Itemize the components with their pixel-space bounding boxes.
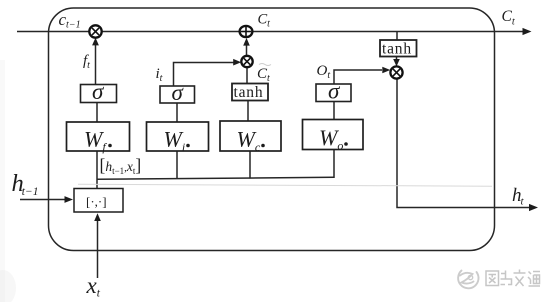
wire h(t-1) into concat bbox=[20, 199, 65, 201]
wire c-line to tanh2 bbox=[396, 32, 398, 41]
svg-text:σ: σ bbox=[328, 79, 341, 104]
weight box Wc bbox=[220, 121, 281, 151]
wire Wo to bus bbox=[333, 150, 335, 179]
arrow x(t) up bbox=[94, 213, 101, 221]
scan smudge bottom-left bbox=[0, 270, 16, 302]
wire x(t) up into concat bbox=[97, 221, 99, 278]
weight box Wo bbox=[303, 120, 364, 150]
sigma box o bbox=[316, 84, 351, 102]
svg-text:[·,·]: [·,·] bbox=[86, 194, 107, 209]
watermark logo swirl bbox=[458, 271, 478, 289]
wire Wi to bus bbox=[176, 151, 178, 179]
wire o-gate up and right to multiply node 3 bbox=[334, 70, 382, 84]
svg-text:tanh: tanh bbox=[382, 41, 412, 58]
wire sigma1 to Wf bbox=[96, 103, 98, 123]
watermark text 图与交通 approximation bbox=[486, 270, 540, 287]
wire tanh1 to Wc bbox=[247, 101, 249, 122]
scan smudge left edge bbox=[0, 60, 5, 302]
scan ghost line below bus bbox=[78, 184, 492, 186]
tanh box 2 bbox=[380, 40, 417, 57]
label candidate C(t) bbox=[259, 64, 271, 66]
wire f-gate vertical to multiply node bbox=[95, 43, 97, 85]
wire bus line [h,x] bbox=[97, 177, 334, 179]
char tong bbox=[528, 272, 540, 287]
arrow o-gate right bbox=[382, 67, 390, 74]
arrow h output right bbox=[529, 204, 538, 211]
char yu bbox=[501, 271, 512, 285]
multiply node X3 (output path) bbox=[390, 66, 402, 78]
wire c-line top bbox=[17, 31, 524, 33]
add node on c-line bbox=[240, 26, 253, 37]
arrow i-gate right bbox=[233, 59, 241, 66]
weight box Wf bbox=[67, 122, 130, 151]
wire i-gate up and right to multiply node 2 bbox=[174, 63, 234, 87]
multiply node X1 on c-line bbox=[89, 25, 101, 37]
wire multiply2 to tanh1 bbox=[246, 67, 248, 84]
wire Wi to sigma2 bbox=[176, 103, 178, 123]
svg-text:σ: σ bbox=[92, 79, 105, 104]
sigma box i bbox=[160, 86, 195, 103]
wire Wf down through bus to concat box bbox=[96, 151, 98, 189]
weight box Wi bbox=[147, 122, 209, 151]
tanh box 1 bbox=[232, 84, 268, 101]
gate boxes bbox=[81, 40, 417, 103]
wire Wc to bus bbox=[249, 151, 251, 179]
sigma box f bbox=[81, 85, 117, 103]
concat box bbox=[74, 189, 123, 213]
char jiao bbox=[514, 270, 526, 287]
wire multiply2 to add node bbox=[246, 44, 248, 56]
arrow c-line output bbox=[523, 28, 532, 35]
arrow f-gate up bbox=[92, 38, 99, 46]
arrow multiply2 to add bbox=[243, 38, 250, 46]
wire h output down and right bbox=[397, 78, 529, 207]
svg-text:σ: σ bbox=[172, 80, 185, 105]
wire sigma3 to Wo bbox=[333, 102, 335, 120]
multiply node X2 (candidate path) bbox=[241, 56, 252, 67]
arrow h(t-1) into concat bbox=[65, 196, 74, 203]
char tu (enclosure) bbox=[486, 271, 499, 286]
svg-text:tanh: tanh bbox=[234, 84, 264, 101]
arrow tanh2 down bbox=[393, 59, 400, 67]
LSTM cell boundary bbox=[49, 8, 495, 251]
arrowheads bbox=[65, 28, 539, 221]
wire tanh2 to multiply3 bbox=[396, 57, 398, 61]
